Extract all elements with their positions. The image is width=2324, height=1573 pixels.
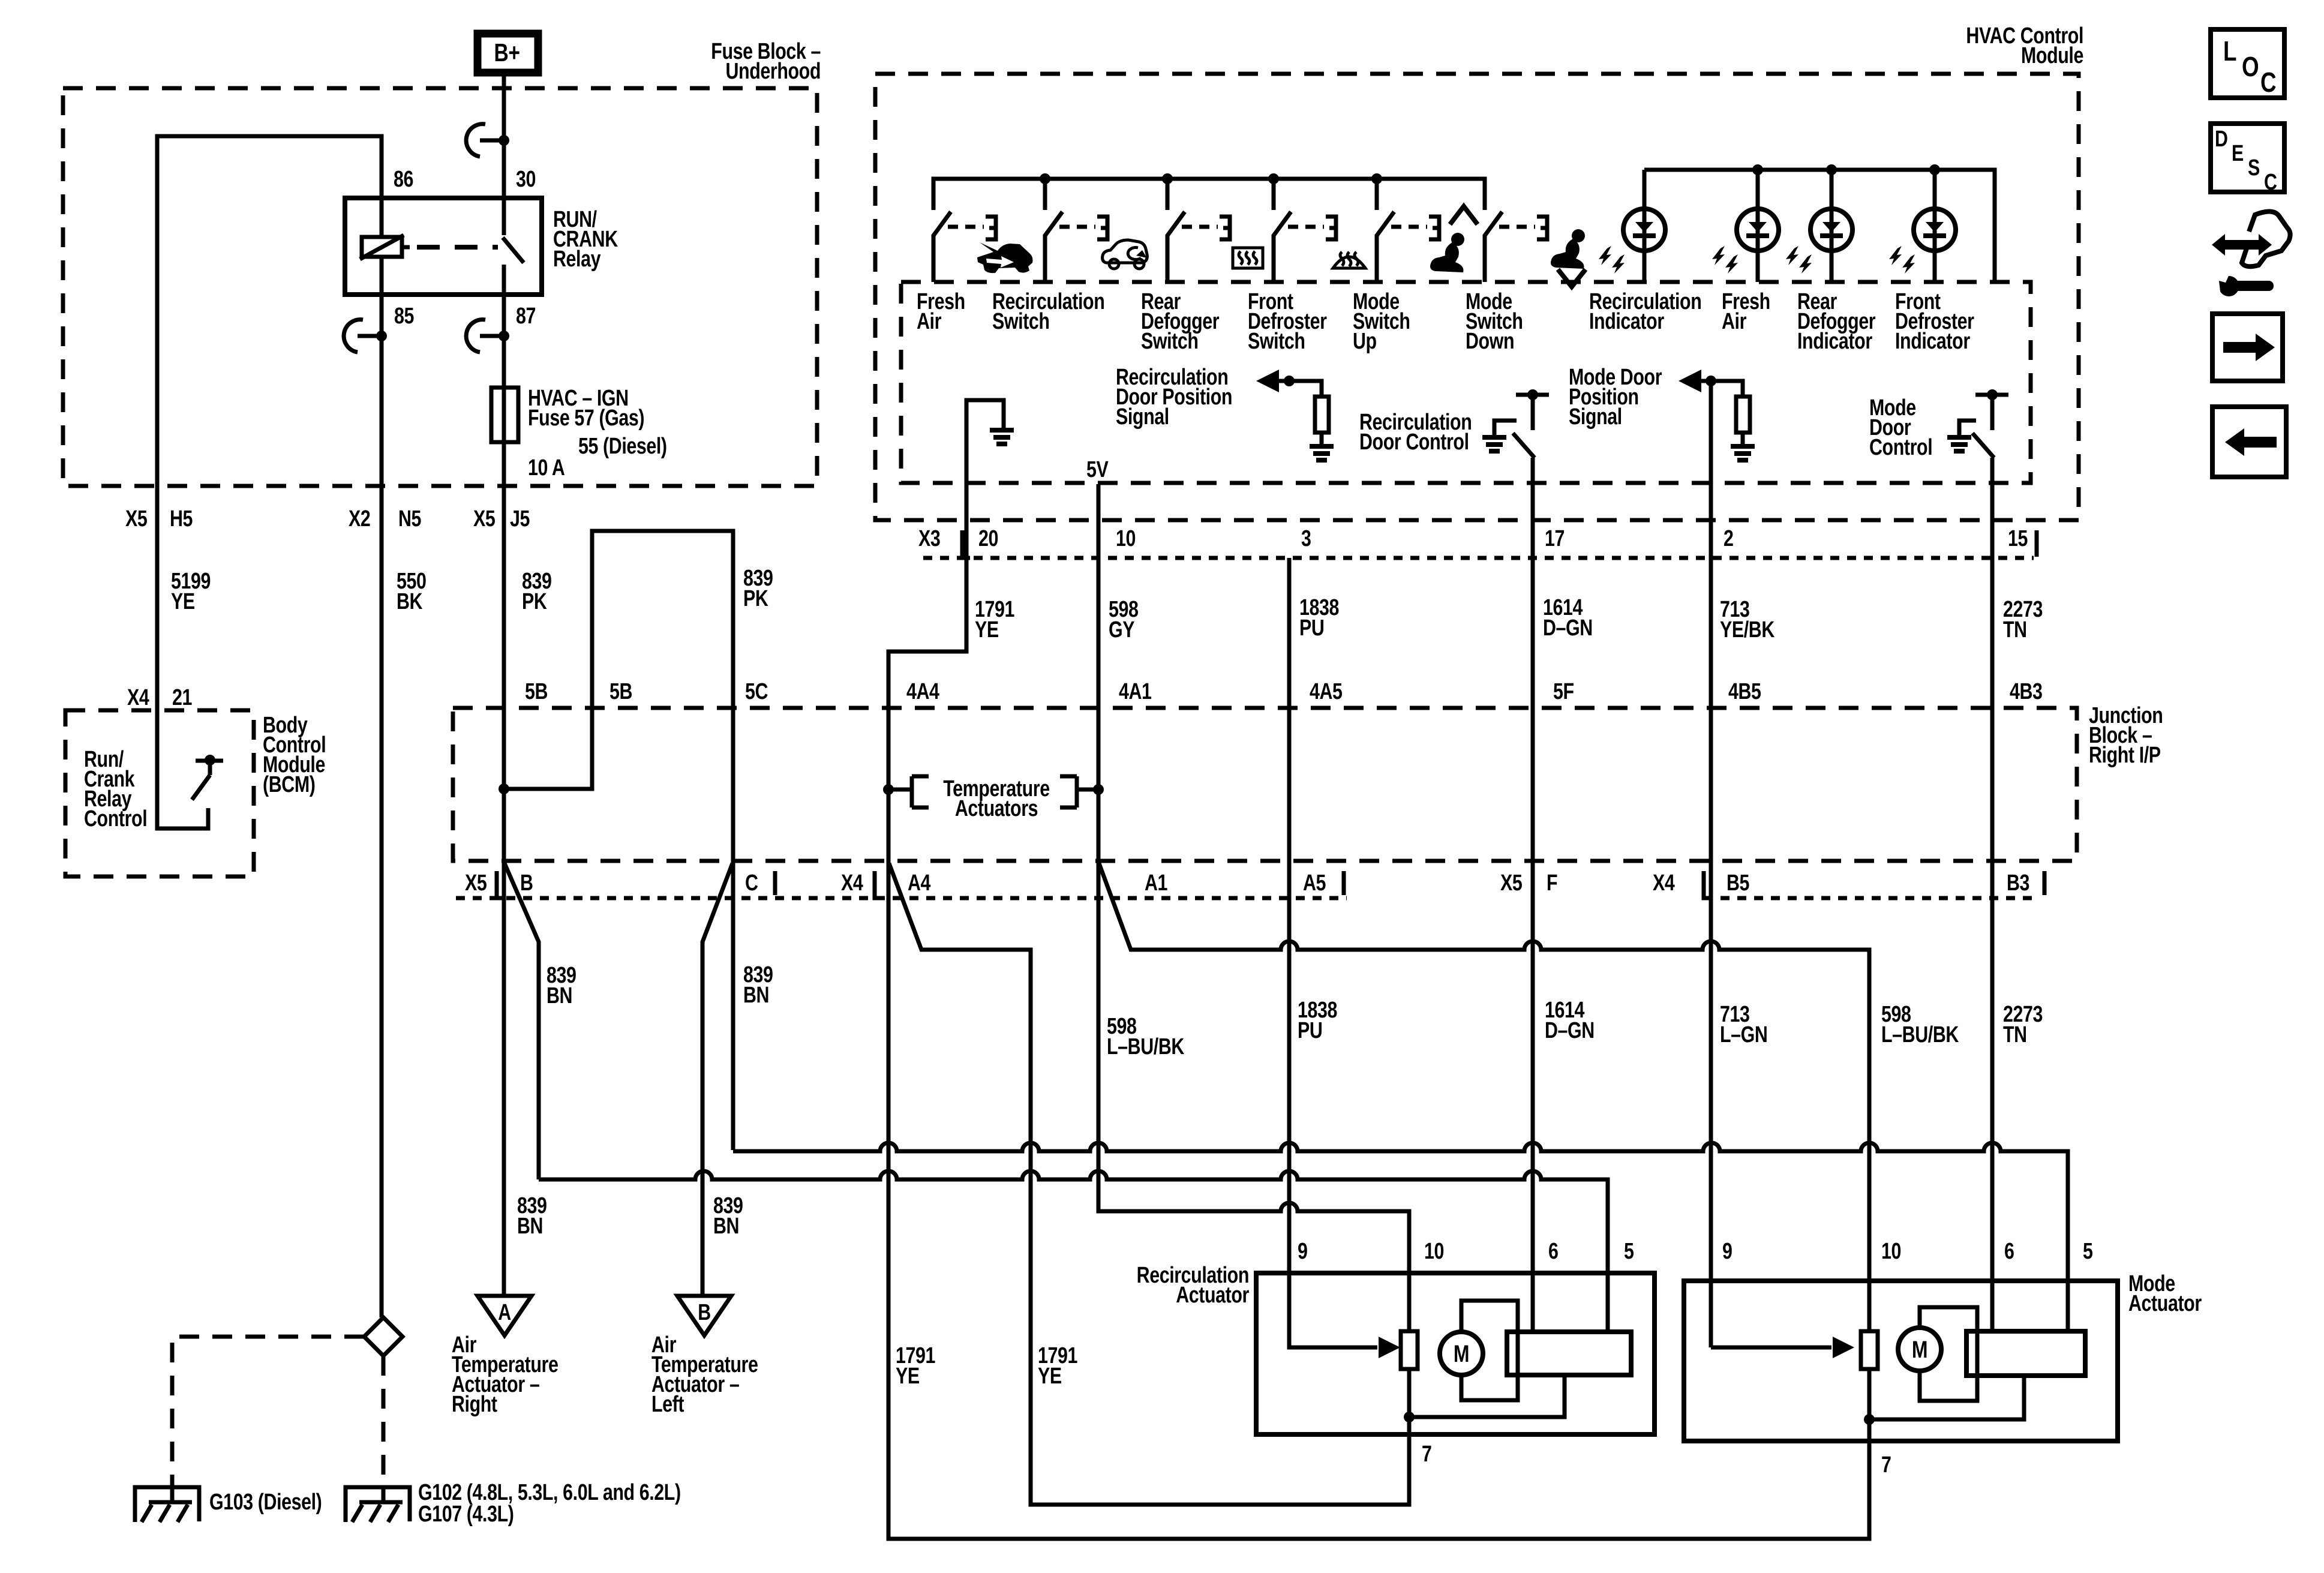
svg-text:86: 86 [394, 167, 413, 192]
mode up seat icon [1458, 1, 1459, 2]
svg-text:X2: X2 [349, 506, 370, 532]
svg-text:X5: X5 [125, 506, 148, 532]
svg-text:D: D [2215, 127, 2228, 152]
svg-text:A1: A1 [1145, 870, 1167, 896]
svg-text:Underhood: Underhood [726, 59, 821, 84]
splice loop 5B to 5C inside junction block [504, 531, 733, 862]
svg-text:YE: YE [896, 1364, 920, 1389]
svg-text:TN: TN [2003, 1022, 2027, 1047]
recirc motor M [1461, 1301, 1518, 1400]
mode actuator box [1684, 1281, 2118, 1441]
svg-text:B: B [520, 870, 533, 896]
svg-text:PK: PK [522, 589, 547, 614]
svg-text:O: O [2242, 51, 2259, 82]
svg-text:N5: N5 [398, 506, 421, 532]
svg-text:5C: 5C [745, 679, 768, 704]
svg-text:L: L [2223, 35, 2236, 67]
front defroster indicator LED [1933, 170, 1937, 282]
svg-text:YE: YE [1038, 1364, 1062, 1389]
svg-text:Control: Control [1869, 435, 1932, 460]
svg-text:Indicator: Indicator [1895, 329, 1970, 354]
BCM box [65, 710, 254, 876]
mode switch up [1375, 179, 1379, 210]
wire 598 L-BU/BK A1 straight leg to recirc pin 10 [1098, 862, 1409, 1331]
svg-text:Right I/P: Right I/P [2089, 743, 2161, 768]
dashed ground runs [172, 1337, 364, 1485]
svg-text:M: M [1454, 1340, 1469, 1367]
svg-text:7: 7 [1422, 1442, 1432, 1467]
svg-text:GY: GY [1109, 617, 1135, 643]
relay switch blade (pin 30 to 87) [502, 198, 506, 235]
wire coil pin 85 down [380, 257, 384, 1317]
svg-text:15: 15 [2008, 526, 2028, 551]
recirculation indicator LED [1643, 170, 1647, 282]
svg-text:2: 2 [1724, 526, 1734, 551]
svg-text:Actuator: Actuator [1176, 1283, 1249, 1308]
wire 1838 PU pin3 [1287, 558, 1292, 862]
svg-text:X3: X3 [918, 526, 940, 551]
svg-text:87: 87 [516, 304, 536, 329]
DESC icon box [2211, 124, 2284, 192]
mode feedback branch [1869, 1376, 2024, 1419]
wire pin 17 / recirc door control [1531, 458, 1535, 1332]
svg-text:PK: PK [743, 586, 768, 611]
mode potentiometer [1861, 1331, 1878, 1369]
svg-text:M: M [1912, 1336, 1927, 1363]
svg-text:Air: Air [917, 309, 941, 334]
LOC icon box [2211, 29, 2284, 98]
wire pin 2 / mode position signal [1709, 381, 1713, 1347]
wire fuse to J5 [502, 442, 506, 862]
svg-text:4A5: 4A5 [1310, 679, 1343, 704]
svg-text:BN: BN [713, 1214, 739, 1239]
svg-text:B5: B5 [1727, 870, 1749, 896]
connector brackets [497, 871, 505, 898]
svg-text:BN: BN [547, 983, 572, 1008]
svg-text:9: 9 [1722, 1239, 1733, 1264]
mode pot wiper to pin 7 [1867, 1369, 1872, 1419]
svg-text:5V: 5V [1086, 457, 1109, 482]
switch common bus [933, 179, 1485, 210]
mode drive block [1966, 1331, 2085, 1376]
svg-text:Signal: Signal [1569, 404, 1622, 430]
svg-text:Down: Down [1466, 329, 1514, 354]
svg-text:H5: H5 [170, 506, 193, 532]
svg-text:YE: YE [975, 617, 999, 643]
svg-text:Fuse 57 (Gas): Fuse 57 (Gas) [528, 406, 644, 431]
svg-text:5B: 5B [525, 679, 548, 704]
svg-text:J5: J5 [510, 506, 530, 532]
svg-text:4B3: 4B3 [2010, 679, 2043, 704]
svg-text:Actuator: Actuator [2128, 1291, 2202, 1316]
svg-text:B3: B3 [2007, 870, 2029, 896]
mode down seat icon [1572, 229, 1585, 242]
svg-text:YE: YE [171, 589, 195, 614]
svg-text:TN: TN [2003, 617, 2027, 643]
junction connector-row fine dashes [456, 896, 2040, 900]
svg-text:D–GN: D–GN [1545, 1018, 1595, 1043]
triangle connector A [478, 1296, 532, 1335]
back arrow icon [2212, 407, 2286, 477]
svg-text:55 (Diesel): 55 (Diesel) [578, 434, 667, 459]
svg-text:10 A: 10 A [528, 455, 565, 481]
svg-text:Door Control: Door Control [1359, 430, 1469, 455]
rear defogger icon [1233, 248, 1263, 268]
svg-text:Up: Up [1353, 329, 1377, 354]
recirculation actuator box [1256, 1273, 1655, 1434]
connector repair icon (arrow + terminal + wrench) [2212, 234, 2272, 256]
connector on B+ feed [480, 139, 504, 143]
upper bus 839 BN to mode actuator pin 5 [733, 1143, 2068, 1331]
svg-text:4B5: 4B5 [1728, 679, 1761, 704]
svg-text:E: E [2232, 141, 2244, 166]
mode position pull resistor to ground [1711, 381, 1743, 397]
svg-text:G103 (Diesel): G103 (Diesel) [209, 1490, 322, 1515]
svg-text:17: 17 [1545, 526, 1565, 551]
svg-text:20: 20 [978, 526, 998, 551]
svg-text:L–GN: L–GN [1720, 1022, 1767, 1047]
relay coil [362, 237, 402, 257]
svg-text:4A4: 4A4 [906, 679, 939, 704]
front defroster icon [1333, 257, 1365, 268]
svg-text:X4: X4 [1653, 870, 1675, 896]
svg-text:L–BU/BK: L–BU/BK [1107, 1034, 1184, 1059]
HVAC-IGN fuse [491, 388, 518, 442]
svg-text:B+: B+ [494, 40, 520, 67]
svg-text:7: 7 [1881, 1452, 1891, 1478]
lower bus 839 BN to recirc actuator pin 5 [539, 1171, 1608, 1332]
svg-text:B: B [698, 1300, 711, 1325]
ground G102/G107 [346, 1487, 410, 1522]
Fuse Block - Underhood box [63, 88, 817, 486]
svg-text:Actuators: Actuators [955, 796, 1038, 821]
svg-text:5F: 5F [1553, 679, 1574, 704]
pin 20 ground [966, 400, 1004, 558]
svg-text:Switch: Switch [1248, 329, 1305, 354]
splice diamond on 550 BK [364, 1317, 403, 1356]
svg-text:C: C [2260, 67, 2276, 98]
front defroster switch [1272, 179, 1276, 210]
svg-text:A5: A5 [1303, 870, 1326, 896]
triangle connector B [677, 1296, 731, 1335]
mode switch down vee [1558, 269, 1586, 287]
svg-text:C: C [2264, 170, 2277, 195]
fresh air switch [932, 179, 936, 210]
svg-text:BN: BN [743, 983, 769, 1008]
svg-text:X5: X5 [1500, 870, 1523, 896]
switch assembly inner box [901, 282, 2031, 483]
mode switch up caret [1450, 206, 1478, 224]
svg-text:S: S [2248, 155, 2260, 181]
svg-text:21: 21 [172, 685, 192, 710]
run/crank relay control switch [196, 759, 223, 763]
svg-text:G107 (4.3L): G107 (4.3L) [418, 1502, 514, 1527]
svg-text:X4: X4 [841, 870, 863, 896]
connector on pin 85 wire [358, 334, 382, 338]
svg-text:Indicator: Indicator [1797, 329, 1872, 354]
svg-text:6: 6 [2004, 1239, 2014, 1264]
forward arrow icon [2212, 314, 2283, 381]
recirc drive block [1507, 1332, 1631, 1375]
svg-text:BK: BK [397, 589, 423, 614]
fresh air car icon [977, 242, 1033, 273]
wire coil pin 86 feeder [157, 136, 382, 710]
RUN/CRANK relay box [345, 198, 542, 295]
svg-text:Air: Air [1722, 309, 1746, 334]
svg-text:Switch: Switch [1141, 329, 1199, 354]
rear defogger indicator LED [1830, 170, 1834, 282]
ground G103 [135, 1487, 199, 1522]
svg-text:L–BU/BK: L–BU/BK [1881, 1022, 1959, 1047]
svg-text:YE/BK: YE/BK [1720, 617, 1774, 643]
wire 839 BN from pin C: straight leg and branch to triangle B [731, 862, 735, 1150]
wire 1791 YE A4 branch to recirc pin 7 [889, 863, 1409, 1505]
svg-text:4A1: 4A1 [1119, 679, 1152, 704]
svg-text:Relay: Relay [553, 247, 600, 272]
wire 839 BN from pin B: straight to triangle A and branch [502, 862, 506, 1296]
relay linkage (dashed) [417, 245, 498, 250]
svg-text:3: 3 [1301, 526, 1311, 551]
svg-text:5: 5 [2083, 1239, 2093, 1264]
svg-text:D–GN: D–GN [1543, 616, 1593, 641]
recirculation switch [1043, 179, 1047, 210]
svg-text:PU: PU [1298, 1018, 1322, 1043]
svg-text:X5: X5 [465, 870, 487, 896]
svg-text:Right: Right [452, 1392, 498, 1417]
rear defogger switch [1166, 179, 1170, 210]
svg-text:X5: X5 [473, 506, 496, 532]
HVAC Control Module box [875, 74, 2079, 520]
svg-text:Module: Module [2021, 43, 2083, 68]
wire 598 L-BU/BK A1 branch to mode pin 10 [1099, 863, 1869, 1331]
mode motor M [1920, 1307, 1977, 1401]
svg-text:Switch: Switch [992, 309, 1050, 334]
svg-text:10: 10 [1881, 1239, 1901, 1264]
svg-text:X4: X4 [127, 685, 149, 710]
wire pin 15 / mode door control [1990, 458, 1995, 1331]
Junction Block - Right I/P box [453, 708, 2077, 861]
svg-text:10: 10 [1424, 1239, 1444, 1264]
indicator common bus [1644, 170, 1995, 282]
svg-text:Signal: Signal [1116, 404, 1169, 430]
recirculation car icon [1103, 240, 1148, 263]
recirc pot wiper to pin 7 [1407, 1369, 1412, 1505]
fresh air indicator LED [1756, 170, 1760, 282]
svg-text:BN: BN [517, 1214, 543, 1239]
wire BCM switch return [157, 710, 208, 828]
mode switch down [1483, 179, 1487, 210]
wire 1838 PU to recirc pin 9 [1289, 862, 1377, 1347]
svg-text:C: C [745, 870, 758, 896]
wire 1791 YE pin20 jog to 4A4 [888, 558, 966, 862]
recirc potentiometer [1401, 1331, 1418, 1369]
svg-text:A: A [498, 1300, 511, 1325]
svg-text:PU: PU [1299, 616, 1324, 641]
svg-text:Indicator: Indicator [1589, 309, 1664, 334]
svg-text:Left: Left [651, 1392, 684, 1417]
wire 1791 YE A4 straight leg to mode pin 7 [888, 862, 1869, 1539]
wire B+ to relay pin 30 [502, 73, 506, 198]
svg-text:(BCM): (BCM) [263, 772, 315, 797]
svg-text:F: F [1547, 870, 1557, 896]
recirc position pull resistor to ground [1289, 381, 1322, 397]
svg-text:5B: 5B [609, 679, 632, 704]
svg-text:9: 9 [1298, 1239, 1308, 1264]
svg-text:5: 5 [1624, 1239, 1634, 1264]
svg-text:6: 6 [1548, 1239, 1559, 1264]
svg-text:A4: A4 [908, 870, 930, 896]
svg-text:10: 10 [1116, 526, 1136, 551]
svg-text:85: 85 [394, 304, 414, 329]
B+ terminal [478, 34, 538, 73]
Temperature Actuators tap [888, 776, 929, 807]
svg-text:30: 30 [516, 167, 536, 192]
connector on pin 87 wire [480, 334, 504, 338]
svg-text:Control: Control [84, 806, 147, 831]
recirc feedback branch [1409, 1375, 1565, 1417]
mode pin 9 arrow [1711, 1346, 1831, 1350]
